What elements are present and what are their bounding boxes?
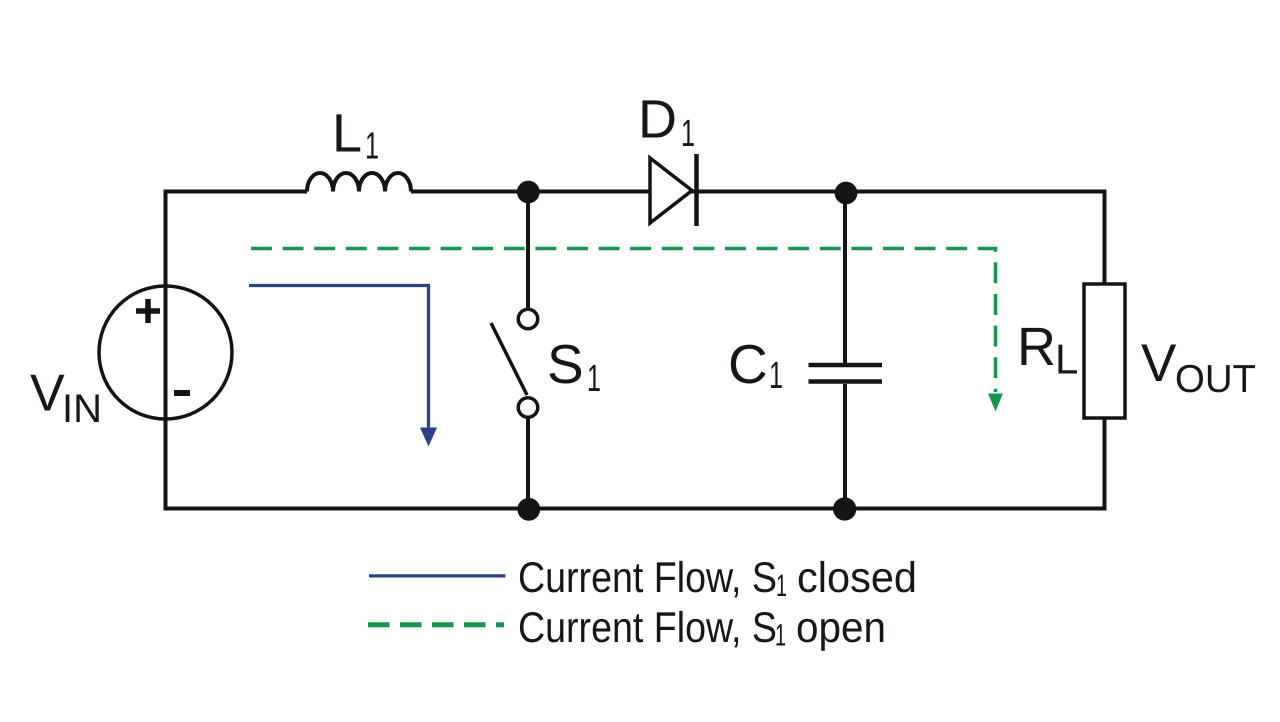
svg-text:1: 1 — [587, 358, 601, 400]
node dot bottom-switch — [517, 498, 540, 521]
svg-text:L: L — [332, 104, 362, 164]
switch S1 branch wire upper — [526, 192, 530, 310]
blue current path S1 closed — [249, 286, 429, 431]
node dot bottom-cap — [833, 497, 856, 520]
minus sign — [174, 390, 190, 396]
switch branch wire lower — [526, 418, 530, 509]
svg-text:IN: IN — [62, 387, 102, 431]
svg-text:1: 1 — [769, 355, 783, 397]
svg-text:D: D — [638, 89, 677, 149]
svg-text:1: 1 — [681, 113, 695, 155]
svg-text:open: open — [796, 604, 886, 652]
capacitor branch wire upper — [843, 192, 847, 364]
node dot top-switch — [517, 181, 540, 204]
svg-text:C: C — [728, 333, 768, 395]
plus sign — [136, 299, 160, 323]
svg-text:OUT: OUT — [1175, 358, 1256, 401]
inductor L1 — [307, 173, 411, 192]
svg-text:L: L — [1055, 336, 1078, 383]
switch top contact — [518, 309, 538, 329]
node dot top-cap — [835, 182, 858, 205]
green arrowhead — [988, 394, 1003, 412]
legend blue sample line — [369, 574, 506, 577]
blue arrowhead — [420, 428, 437, 447]
svg-text:Current Flow, S: Current Flow, S — [518, 604, 777, 652]
wire through source — [164, 286, 168, 419]
svg-text:S: S — [547, 333, 584, 395]
capacitor branch wire lower — [843, 384, 847, 509]
svg-text:closed: closed — [797, 554, 917, 602]
svg-text:1: 1 — [776, 568, 787, 603]
svg-text:1: 1 — [365, 126, 379, 168]
diode D1 — [650, 154, 697, 226]
capacitor C1 plates — [809, 363, 883, 368]
svg-text:1: 1 — [775, 618, 786, 653]
svg-text:Current Flow, S: Current Flow, S — [518, 554, 777, 602]
legend green sample line — [368, 622, 504, 627]
resistor R_L body — [1084, 284, 1125, 418]
svg-text:V: V — [1141, 334, 1177, 393]
switch bottom contact — [518, 398, 538, 418]
switch lever — [491, 323, 527, 395]
source V_IN circle — [99, 286, 232, 419]
svg-text:R: R — [1017, 317, 1056, 377]
wire outer loop — [166, 192, 1105, 509]
green dashed current path S1 open — [251, 249, 996, 393]
svg-text:V: V — [30, 365, 65, 423]
